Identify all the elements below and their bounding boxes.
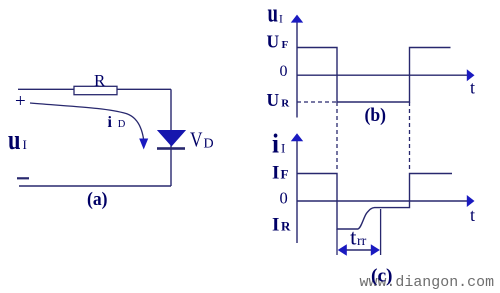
svg-text:V: V — [190, 128, 203, 152]
svg-text:I: I — [272, 162, 279, 183]
trr arrow shaft — [341, 249, 377, 251]
svg-text:(a): (a) — [87, 189, 108, 210]
svg-text:rr: rr — [357, 234, 367, 249]
svg-text:+: + — [15, 91, 26, 112]
svg-text:I: I — [23, 137, 27, 152]
svg-text:I: I — [272, 214, 279, 235]
svg-text:0: 0 — [280, 188, 288, 207]
svg-text:u: u — [268, 0, 279, 28]
axis iI vertical line — [296, 140, 298, 243]
svg-text:F: F — [282, 39, 289, 51]
axis t horizontal line (c) — [297, 200, 467, 202]
diode VD triangle — [158, 131, 185, 146]
node minus terminal — [17, 177, 29, 179]
axis iI arrowhead — [291, 133, 303, 141]
resistor R1 box — [74, 86, 117, 94]
trr left arrowhead — [338, 244, 347, 256]
svg-text:(c): (c) — [371, 266, 393, 287]
dashed vertical at t1 — [336, 102, 338, 172]
trr left boundary line — [336, 229, 338, 255]
dashed vertical at t2 — [409, 102, 411, 172]
svg-text:t: t — [350, 224, 357, 249]
waveform uI square wave — [297, 48, 451, 103]
svg-text:(b): (b) — [365, 105, 387, 126]
axis uI arrowhead — [291, 15, 303, 23]
trr right arrowhead — [371, 244, 380, 256]
axis t arrowhead (c) — [467, 195, 475, 207]
axis t horizontal line (b) — [297, 74, 467, 76]
svg-text:i: i — [108, 114, 113, 131]
wire iD current arc — [30, 103, 144, 140]
diode VD cathode bar — [157, 147, 185, 150]
wire top horizontal — [18, 88, 171, 90]
svg-text:R: R — [94, 71, 106, 90]
waveform iI with reverse recovery — [297, 174, 452, 230]
svg-text:t: t — [470, 205, 475, 225]
svg-text:0: 0 — [280, 63, 288, 80]
wire right vertical — [170, 89, 172, 186]
iD arrowhead — [139, 139, 148, 150]
trr right boundary line — [380, 209, 382, 255]
wire bottom horizontal — [19, 185, 171, 187]
svg-text:U: U — [267, 90, 280, 110]
dashed UR level line — [297, 101, 337, 103]
svg-text:D: D — [204, 137, 214, 152]
axis uI vertical line — [296, 21, 298, 118]
svg-text:R: R — [281, 218, 291, 233]
svg-text:R: R — [281, 97, 290, 109]
svg-text:i: i — [272, 128, 279, 158]
axis t arrowhead (b) — [467, 69, 475, 81]
svg-text:D: D — [118, 119, 126, 130]
svg-text:t: t — [470, 77, 475, 97]
svg-text:u: u — [8, 124, 21, 156]
svg-text:U: U — [267, 32, 280, 52]
svg-text:I: I — [279, 14, 283, 26]
svg-text:F: F — [281, 166, 289, 181]
svg-text:I: I — [281, 140, 285, 155]
